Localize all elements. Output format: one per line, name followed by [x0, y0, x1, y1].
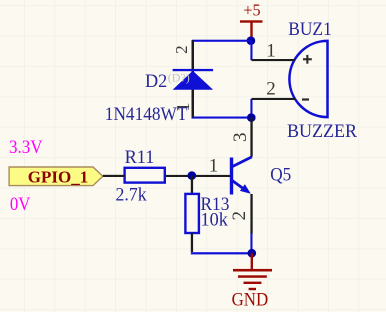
pin 1 base wire: [103, 155, 230, 177]
svg-text:3.3V: 3.3V: [9, 137, 43, 158]
svg-text:2: 2: [172, 45, 191, 54]
port GPIO_1: [9, 167, 103, 186]
diode D2: [173, 40, 214, 118]
buzzer BUZ1: [289, 41, 327, 117]
svg-text:R11: R11: [125, 147, 155, 168]
transistor Q5: [230, 157, 252, 195]
svg-text:GPIO_1: GPIO_1: [28, 167, 88, 186]
svg-text:(D?): (D?): [168, 71, 190, 85]
wire bottom node diode to junction: [192, 117, 253, 119]
wire emitter to bottom rail: [250, 233, 252, 253]
pin 3 collector wire: [230, 118, 253, 157]
svg-text:D2: D2: [145, 71, 167, 92]
svg-text:2.7k: 2.7k: [116, 185, 148, 206]
power +5: [240, 0, 263, 37]
node bottom junction: [247, 113, 256, 122]
svg-text:1: 1: [209, 155, 219, 176]
svg-text:3: 3: [230, 132, 251, 142]
svg-text:1N4148WT: 1N4148WT: [105, 104, 188, 125]
node gnd junction: [248, 249, 257, 258]
svg-text:BUZ1: BUZ1: [288, 19, 332, 40]
svg-text:10k: 10k: [201, 210, 229, 231]
resistor R13: [185, 194, 199, 233]
svg-text:0V: 0V: [10, 194, 31, 215]
svg-text:2: 2: [266, 78, 276, 99]
svg-text:2: 2: [229, 211, 250, 221]
wire junction to R13: [191, 176, 193, 194]
wire port to R11: [103, 175, 125, 177]
node top junction: [247, 36, 256, 45]
wire R13 bottom pin: [191, 233, 193, 252]
wire buzzer pin 2 down to bottom junction: [250, 99, 252, 118]
svg-text:GND: GND: [232, 290, 269, 311]
wire junction down to buzzer pin 1: [250, 41, 252, 61]
wire bottom rail: [191, 252, 252, 254]
pin 1 of BUZ1: [252, 40, 295, 61]
pin 2 emitter wire: [229, 194, 253, 234]
svg-text:Q5: Q5: [270, 165, 291, 186]
ground GND: [232, 253, 272, 310]
svg-text:BUZZER: BUZZER: [287, 121, 357, 142]
pin 2 of BUZ1: [252, 78, 296, 100]
node base junction: [188, 171, 197, 180]
svg-text:+5: +5: [243, 0, 260, 19]
wire top node diode to junction: [192, 40, 251, 42]
resistor R11: [125, 168, 165, 183]
svg-text:1: 1: [266, 40, 276, 61]
